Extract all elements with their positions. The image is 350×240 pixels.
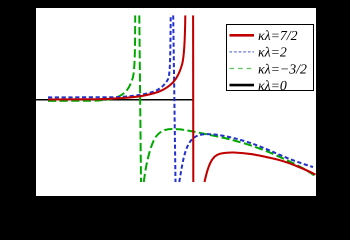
svg-text:κλ=2: κλ=2 bbox=[258, 45, 287, 60]
svg-text:κλ=7/2: κλ=7/2 bbox=[258, 28, 298, 43]
legend box bbox=[227, 25, 314, 91]
curve green kl=-3/2 jump asymptote bbox=[139, 15, 141, 182]
legend sample green dashed bbox=[230, 68, 255, 70]
curve red kl=7/2 jump asymptote bbox=[192, 15, 194, 182]
curve blue kl=2 left branch bbox=[48, 15, 171, 97]
curve green kl=-3/2 left branch bbox=[48, 15, 135, 101]
legend sample blue dashed bbox=[230, 51, 255, 53]
curve green kl=-3/2 right branch bbox=[144, 129, 314, 182]
curve blue kl=2 right branch bbox=[179, 134, 313, 182]
legend sample black bbox=[230, 84, 255, 87]
white plot area bbox=[36, 8, 316, 196]
curve black kl=0 (horizontal line, mostly hidden under red) bbox=[36, 99, 193, 101]
svg-text:κλ=−3/2: κλ=−3/2 bbox=[258, 61, 307, 76]
curve red kl=7/2 right branch bbox=[205, 152, 316, 182]
svg-text:κλ=0: κλ=0 bbox=[258, 78, 287, 93]
curve red kl=7/2 left branch bbox=[48, 15, 185, 99]
legend sample red bbox=[230, 34, 255, 37]
curve blue kl=2 jump asymptote bbox=[173, 15, 175, 182]
